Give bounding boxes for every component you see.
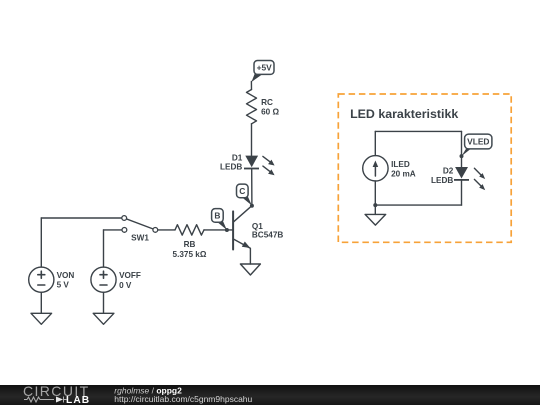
svg-text:D1: D1 bbox=[232, 153, 243, 162]
svg-text:http://circuitlab.com/c5gnm9hp: http://circuitlab.com/c5gnm9hpscahu bbox=[114, 394, 252, 404]
svg-text:60 Ω: 60 Ω bbox=[261, 107, 279, 116]
svg-text:LED karakteristikk: LED karakteristikk bbox=[350, 107, 458, 121]
svg-text:RC: RC bbox=[261, 98, 273, 107]
svg-text:LEDB: LEDB bbox=[220, 162, 242, 171]
svg-text:+5V: +5V bbox=[257, 62, 273, 72]
svg-text:20 mA: 20 mA bbox=[391, 170, 416, 179]
svg-text:Q1: Q1 bbox=[252, 222, 263, 231]
svg-text:B: B bbox=[214, 211, 220, 221]
svg-text:0 V: 0 V bbox=[119, 281, 132, 290]
svg-text:VON: VON bbox=[57, 271, 75, 280]
svg-text:RB: RB bbox=[184, 240, 196, 249]
svg-text:5 V: 5 V bbox=[57, 281, 70, 290]
svg-text:BC547B: BC547B bbox=[252, 231, 283, 240]
svg-text:LAB: LAB bbox=[66, 395, 90, 405]
svg-text:VLED: VLED bbox=[467, 137, 489, 147]
svg-text:C: C bbox=[239, 186, 245, 196]
svg-text:D2: D2 bbox=[443, 166, 454, 175]
svg-text:ILED: ILED bbox=[391, 160, 410, 169]
svg-text:5.375 kΩ: 5.375 kΩ bbox=[173, 250, 207, 259]
svg-text:LEDB: LEDB bbox=[431, 176, 453, 185]
svg-text:VOFF: VOFF bbox=[119, 271, 141, 280]
svg-text:SW1: SW1 bbox=[131, 234, 149, 243]
